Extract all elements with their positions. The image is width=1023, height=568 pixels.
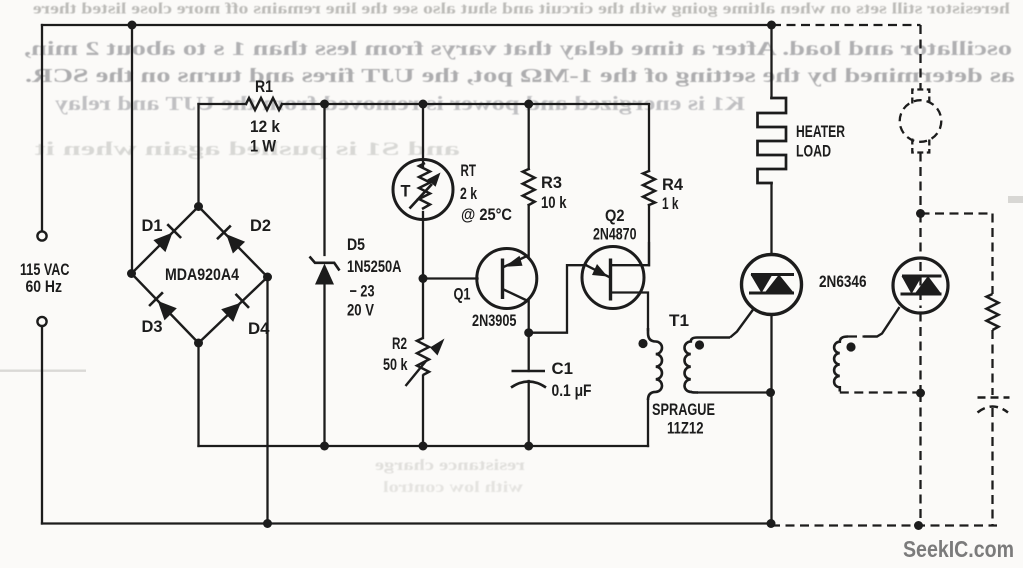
svg-text:LOAD: LOAD <box>796 143 831 161</box>
wire dashed snubber top <box>921 212 993 214</box>
svg-text:as determined by the setting o: as determined by the setting of the 1-MΩ… <box>25 65 1015 87</box>
svg-text:D3: D3 <box>142 318 163 336</box>
svg-text:@ 25°C: @ 25°C <box>461 206 512 224</box>
svg-text:20 V: 20 V <box>347 302 374 320</box>
node RT top <box>419 100 428 109</box>
wire dashed triac Q4 to coil junction <box>919 313 921 394</box>
node bridge bottom vertex <box>194 339 203 348</box>
scan streak left edge <box>0 370 86 372</box>
svg-text:115 VAC: 115 VAC <box>20 261 70 279</box>
wire dashed trigger coil top link <box>848 335 864 337</box>
wire dashed snubber cap to bottom <box>991 408 993 526</box>
snubber resistor (dashed branch) <box>987 294 999 330</box>
transformer T1 secondary phasing dot <box>695 340 704 349</box>
svg-text:oscillator and load. After a t: oscillator and load. After a time delay … <box>24 38 1012 60</box>
wire R4 branch <box>648 104 650 265</box>
wire left terminal upper lead <box>41 25 43 231</box>
resistor R1 12k 1W <box>246 98 282 110</box>
resistor R4 1k <box>643 171 655 205</box>
transistor Q1 2N3905 <box>477 249 537 309</box>
wire dashed top rail extension <box>772 24 921 26</box>
node bridge right to bottom rail <box>263 519 272 528</box>
terminal 115 VAC upper <box>37 231 46 240</box>
node dashed bottom rail <box>914 521 923 530</box>
svg-text:Q2: Q2 <box>605 207 625 225</box>
transformer T1 primary winding <box>648 328 662 400</box>
wire R3 branch <box>528 104 530 256</box>
node R3 top <box>524 100 533 109</box>
svg-text:D5: D5 <box>347 236 365 254</box>
potentiometer R2 50k <box>406 338 445 386</box>
motor (dashed alternate load) <box>900 90 942 153</box>
wire R1 DC rail <box>199 103 650 105</box>
svg-text:HEATER: HEATER <box>796 123 845 141</box>
svg-text:T1: T1 <box>669 312 689 330</box>
triac Q3 2N6346 <box>730 255 802 338</box>
svg-text:− 23: − 23 <box>350 283 375 301</box>
node top-rail / heater branch <box>767 21 776 30</box>
triac Q3 gate lead <box>730 309 754 338</box>
thermistor RT 2k <box>393 160 453 220</box>
wire triac main terminal drop <box>770 315 772 524</box>
svg-text:2N6346: 2N6346 <box>819 273 867 291</box>
wire bottom AC rail <box>42 522 771 524</box>
wire Q1 collector lead <box>528 301 530 333</box>
node C1 bottom <box>524 442 533 451</box>
node dashed trigger coil bottom <box>916 389 925 398</box>
svg-text:10 k: 10 k <box>541 194 567 212</box>
node dashed junction upper right <box>916 209 925 218</box>
svg-text:R4: R4 <box>662 176 684 194</box>
snubber capacitor (dashed) <box>978 398 1010 413</box>
wire Q2 base-one lead to T1 primary <box>611 293 649 331</box>
svg-text:2N4870: 2N4870 <box>593 226 637 244</box>
node D5 bottom <box>320 442 329 451</box>
wire dashed motor feed <box>919 25 921 89</box>
svg-text:Q1: Q1 <box>454 286 471 304</box>
terminal 115 VAC lower <box>37 317 46 326</box>
wire C1 branch <box>528 333 530 446</box>
svg-text:0.1 μF: 0.1 μF <box>552 382 592 400</box>
transformer T1 primary phasing dot <box>638 339 647 348</box>
wire dashed snubber mid <box>991 330 993 395</box>
svg-text:heresistor still sets on when: heresistor still sets on when altime goi… <box>33 1 1010 18</box>
wire heater branch from top rail <box>770 25 772 98</box>
wire bridge top to R1 rail <box>197 104 199 207</box>
diode D4 <box>221 294 249 322</box>
node bottom rail / triac branch <box>767 519 776 528</box>
wire top AC rail <box>42 24 772 26</box>
svg-text:RT: RT <box>461 162 477 180</box>
node bridge right vertex <box>263 273 272 282</box>
wire D5 branch <box>323 104 325 446</box>
svg-text:resistance charge: resistance charge <box>375 457 525 474</box>
wire DC common rail <box>199 445 649 447</box>
node Q1 base junction <box>419 274 428 283</box>
bridge rectifier MDA920A4 outline <box>132 207 268 344</box>
node T1 secondary bottom <box>766 388 775 397</box>
svg-text:D1: D1 <box>142 217 163 235</box>
svg-text:2N3905: 2N3905 <box>472 312 517 330</box>
triac Q4 2N6346 (alternate, dashed circuit) <box>864 258 948 337</box>
wire bridge right output drop <box>266 277 268 524</box>
wire RT / R2 branch <box>422 104 424 446</box>
wire dashed through triac Q4 <box>919 262 921 308</box>
svg-text:50 k: 50 k <box>383 356 408 374</box>
svg-text:R3: R3 <box>541 174 562 192</box>
wire left terminal lower lead <box>41 326 43 524</box>
capacitor C1 0.1uF <box>511 371 546 388</box>
node bridge top vertex <box>194 202 203 211</box>
node R2 bottom <box>419 442 428 451</box>
node Q1 collector / C1 / Q2 emitter <box>524 328 533 337</box>
svg-text:2 k: 2 k <box>460 185 478 203</box>
svg-text:MDA920A4: MDA920A4 <box>165 266 240 284</box>
svg-text:and S1 is pushed again when it: and S1 is pushed again when it <box>34 139 460 160</box>
node D5 top <box>320 100 329 109</box>
node bridge left vertex <box>127 269 136 278</box>
trigger coil for Q4 <box>834 337 848 392</box>
scan streak right edge <box>1008 196 1023 203</box>
svg-text:1N5250A: 1N5250A <box>347 258 402 276</box>
svg-text:R2: R2 <box>392 335 407 353</box>
triac Q4 gate lead <box>864 307 900 337</box>
wire Q1 base lead <box>423 277 478 279</box>
svg-text:R1: R1 <box>255 78 273 96</box>
heater load element <box>758 98 787 183</box>
svg-text:12 k: 12 k <box>250 118 281 136</box>
wire dashed bottom rail extension <box>771 524 997 526</box>
trigger coil phasing dot <box>846 342 855 351</box>
svg-text:with low control: with low control <box>382 479 523 496</box>
svg-text:C1: C1 <box>552 360 574 378</box>
wire T1 secondary bottom stub <box>698 391 771 393</box>
svg-text:60 Hz: 60 Hz <box>26 278 63 296</box>
svg-text:SeekIC.com: SeekIC.com <box>903 536 1014 562</box>
wire dashed junction to triac Q4 <box>919 214 921 259</box>
wire heater to triac Q3 <box>770 183 772 255</box>
wire bridge left input drop <box>131 25 133 274</box>
unijunction transistor Q2 2N4870 <box>582 247 644 309</box>
wire collector node to Q2 emitter <box>529 265 586 333</box>
wire dashed motor to junction <box>919 153 921 214</box>
svg-text:11Z12: 11Z12 <box>667 420 704 438</box>
svg-text:SPRAGUE: SPRAGUE <box>652 401 715 419</box>
resistor R3 10k <box>523 169 535 205</box>
svg-text:D4: D4 <box>248 320 270 338</box>
wire bridge bottom to DC common <box>197 343 199 446</box>
svg-text:1 k: 1 k <box>662 195 679 213</box>
svg-text:D2: D2 <box>250 217 271 235</box>
wire dashed coil junction to bottom rail <box>919 393 921 526</box>
diode D3 <box>149 292 177 320</box>
diode D1 <box>153 224 181 252</box>
svg-text:1 W: 1 W <box>250 138 276 156</box>
wire dashed trigger coil bottom link <box>840 391 921 393</box>
wire Q2 base-two lead <box>611 243 650 265</box>
wire dashed snubber resistor feed <box>991 214 993 295</box>
node top-rail / bridge input <box>128 21 137 30</box>
wire T1 primary bottom to DC common <box>647 400 649 446</box>
diode D2 <box>217 226 245 254</box>
transformer T1 secondary winding <box>684 338 730 393</box>
svg-text:T: T <box>401 183 411 201</box>
zener diode D5 1N5250A <box>310 257 340 285</box>
